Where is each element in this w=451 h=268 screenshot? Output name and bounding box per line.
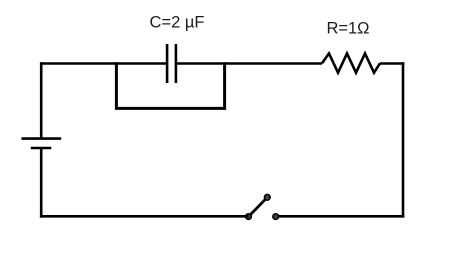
switch S1 lever-end dot: [264, 194, 270, 200]
svg-text:R=1Ω: R=1Ω: [326, 20, 369, 38]
capacitor C1 left plate: [166, 44, 169, 83]
wire top-right segment: [380, 62, 404, 65]
wire bottom-right segment: [276, 215, 405, 218]
switch S1 pivot dot: [246, 214, 252, 220]
wire right edge: [402, 62, 405, 217]
wire left edge upper: [40, 62, 43, 138]
wire top-middle segment: [176, 62, 322, 65]
battery B1 long plate (positive): [22, 137, 62, 140]
wire capacitor bypass loop: [116, 62, 224, 108]
svg-text:C=2 µF: C=2 µF: [150, 14, 205, 32]
wire left edge lower: [40, 148, 43, 218]
resistor R1 zigzag: [322, 53, 380, 72]
switch S1 right contact dot: [273, 214, 279, 220]
wire bottom-left segment: [40, 215, 249, 218]
battery B1 short plate (negative): [31, 147, 52, 150]
wire top-left segment: [40, 62, 167, 65]
switch S1 lever: [249, 197, 268, 216]
capacitor C1 right plate: [175, 44, 178, 83]
